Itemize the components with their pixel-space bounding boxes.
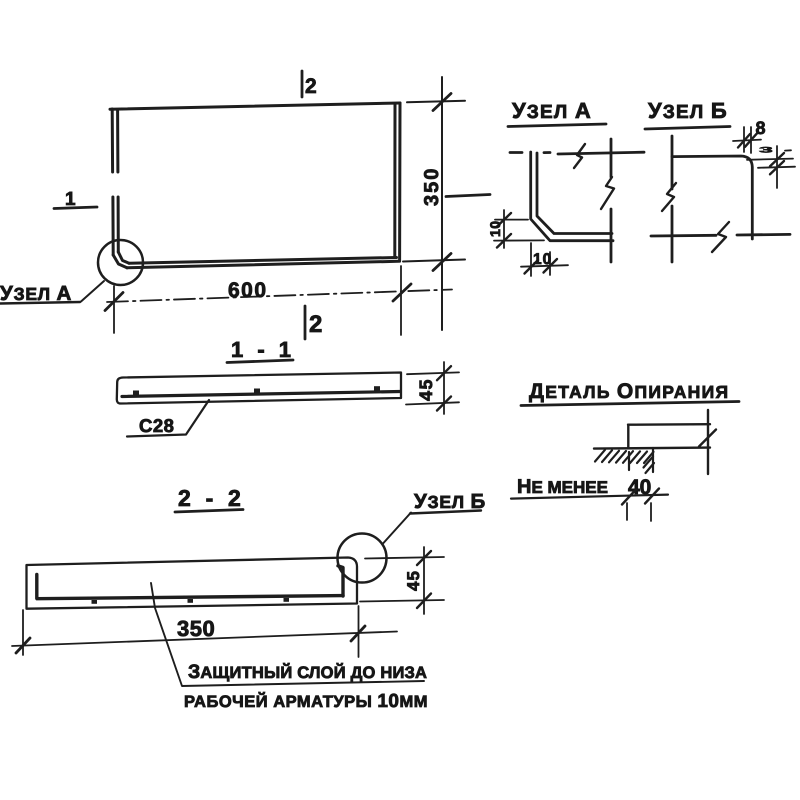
detail node B break zigzags [662, 183, 729, 252]
svg-text:350: 350 [421, 167, 443, 206]
svg-text:3: 3 [759, 145, 773, 154]
svg-text:45: 45 [416, 378, 436, 401]
support detail slab [594, 410, 716, 474]
section 2-2 slab outline [27, 558, 358, 609]
detail node B dim 3 [747, 146, 795, 188]
svg-text:2 - 2: 2 - 2 [178, 485, 245, 511]
section mark 2 top [301, 71, 304, 97]
svg-text:ДЕТАЛЬ ОПИРАНИЯ: ДЕТАЛЬ ОПИРАНИЯ [529, 380, 729, 403]
svg-text:НЕ МЕНЕЕ: НЕ МЕНЕЕ [517, 476, 608, 498]
detail node B profile [651, 136, 790, 262]
leader to note text [151, 583, 424, 686]
dimension 350 plan [403, 77, 465, 330]
section mark 1 right [446, 195, 490, 197]
section 2-2 rebar [37, 566, 343, 599]
section 1-1 dim 45 [406, 362, 459, 414]
support detail dim line [511, 452, 668, 521]
node B callout circle [338, 534, 387, 583]
svg-text:2: 2 [305, 75, 317, 98]
svg-text:УЗЕЛ Б: УЗЕЛ Б [648, 98, 728, 123]
node A leader [81, 281, 104, 302]
svg-text:УЗЕЛ А: УЗЕЛ А [512, 98, 592, 123]
section 1-1 slab outline [117, 373, 401, 404]
section 2-2 dim 45 [360, 547, 444, 614]
svg-text:45: 45 [404, 570, 423, 591]
detail node B dim 8 [733, 127, 761, 153]
section mark 2 bottom [304, 306, 307, 339]
detail node A profile [510, 139, 644, 262]
support hatching [595, 448, 654, 473]
svg-text:10: 10 [487, 220, 503, 237]
section 1-1 rebar [122, 392, 400, 397]
detail node A break zigzags [574, 144, 614, 209]
detail node A dim 10 horizontal [521, 243, 568, 276]
svg-text:8: 8 [756, 118, 766, 138]
node B leader [383, 513, 411, 544]
svg-text:РАБОЧЕЙ АРМАТУРЫ 10ММ: РАБОЧЕЙ АРМАТУРЫ 10ММ [184, 691, 428, 712]
svg-text:10: 10 [533, 251, 552, 268]
plan view slab outline [110, 103, 400, 268]
svg-text:1 - 1: 1 - 1 [231, 337, 295, 362]
dimension 600 plan [105, 266, 452, 335]
svg-text:ЗАЩИТНЫЙ СЛОЙ ДО НИЗА: ЗАЩИТНЫЙ СЛОЙ ДО НИЗА [188, 661, 427, 683]
section 2-2 rebar anchors [92, 598, 290, 604]
svg-text:С28: С28 [139, 415, 174, 436]
node A callout circle [98, 240, 143, 285]
svg-text:2: 2 [309, 311, 322, 338]
detail node A dim 10 vertical [494, 210, 544, 248]
section 1-1 rebar anchors [133, 386, 380, 396]
svg-text:600: 600 [228, 279, 268, 302]
section 2-2 dim 350 [12, 606, 397, 657]
svg-text:350: 350 [177, 616, 215, 641]
